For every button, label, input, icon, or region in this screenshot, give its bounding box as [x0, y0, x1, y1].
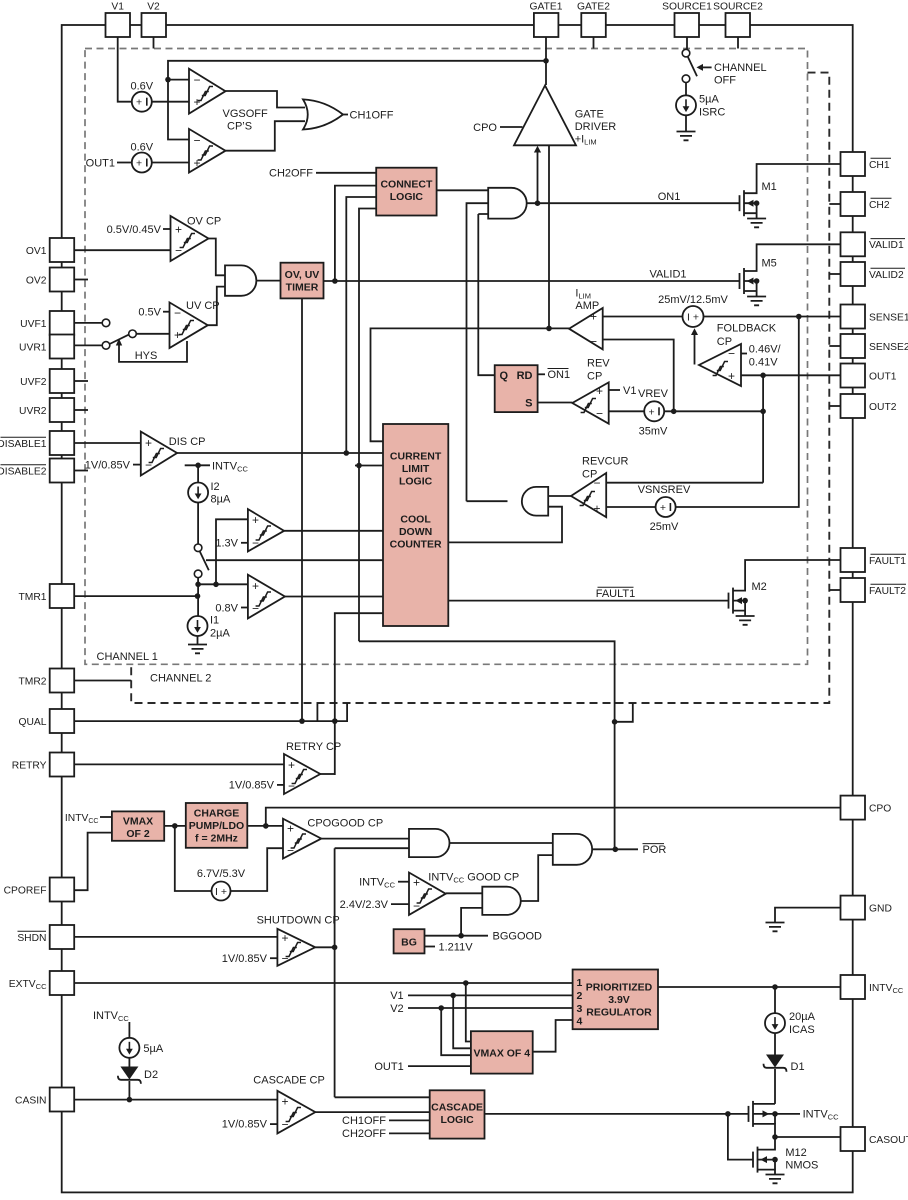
junction dot timer out [332, 278, 338, 284]
wire REVCUR out to AND [548, 495, 571, 497]
svg-text:+: + [660, 502, 666, 514]
comparator REV CP [572, 357, 636, 423]
pin GATE2 [581, 13, 606, 37]
svg-text:FOLDBACK: FOLDBACK [717, 322, 777, 334]
pin CH1 [841, 152, 866, 176]
wire CH2OFF stub [389, 1132, 430, 1134]
wire INTVCC label stub [185, 464, 210, 466]
arrowhead foldback to source [691, 328, 698, 335]
svg-text:CHANNEL: CHANNEL [714, 62, 767, 74]
wire AND in2 vertical from rev AND [467, 203, 489, 501]
wire timer switch node down [197, 578, 199, 617]
wire VMAX OF 2 out to charge pump [164, 825, 186, 827]
current source I2 8uA [188, 481, 231, 506]
svg-text:DISABLE1: DISABLE1 [0, 439, 47, 450]
wire charge pump out to CPOGOOD plus [247, 825, 283, 827]
wire 1.3V comp output to logic [284, 530, 383, 532]
box OV UV TIMER [281, 263, 324, 299]
svg-text:3.9V: 3.9V [608, 994, 630, 1006]
wire BG out to BGGOOD [425, 935, 489, 937]
wire INTVCC dot down to I2 [197, 465, 199, 483]
svg-text:FAULT2: FAULT2 [869, 586, 906, 597]
svg-text:REGULATOR: REGULATOR [586, 1006, 652, 1018]
wire INTVCC GOOD minus stub [391, 903, 409, 905]
wire REV CP plus stub V1 [609, 389, 620, 391]
junction dots DIS/timer section [195, 463, 201, 469]
svg-text:CH1OFF: CH1OFF [342, 1115, 386, 1127]
svg-text:PUMP/LDO: PUMP/LDO [189, 820, 244, 832]
wire BGGOOD up to AND2 in2 [461, 908, 482, 936]
pin VALID1 [841, 232, 866, 256]
wire AND1 in2 from shutdown vertical [335, 847, 409, 849]
timer switch contact top [194, 544, 202, 552]
pin FAULT1 [841, 548, 866, 572]
svg-text:UVF2: UVF2 [20, 377, 47, 388]
wire OUT1 label to VMAX4 in4 [408, 1065, 471, 1067]
svg-text:ICAS: ICAS [789, 1024, 815, 1036]
svg-text:0.6V: 0.6V [130, 81, 153, 93]
latch Q RD S [495, 365, 538, 412]
pin labels left [0, 246, 47, 1107]
svg-text:CH1: CH1 [869, 160, 890, 171]
wire V2 line to regulator in3 [408, 1007, 573, 1009]
wire FOLDBACK arrow vertical [694, 333, 696, 365]
wire UV CP out to AND [208, 287, 225, 326]
svg-text:+: + [288, 758, 295, 772]
wire RETRY CP minus stub [277, 784, 284, 786]
svg-text:V2: V2 [390, 1003, 403, 1015]
svg-text:VALID1: VALID1 [869, 240, 904, 251]
wire OUT2 stub [829, 405, 840, 407]
wire REVCUR minus line [606, 482, 763, 484]
svg-text:OV CP: OV CP [187, 216, 221, 228]
svg-text:COOL: COOL [400, 514, 431, 526]
svg-text:VMAX: VMAX [123, 815, 153, 827]
junction dots regulator [463, 980, 469, 986]
wire AND1 out to POR AND [450, 842, 553, 844]
wire QUAL vertical into logic [335, 613, 383, 775]
svg-text:V1: V1 [390, 990, 403, 1002]
wire DISABLE2 stub [74, 470, 88, 472]
current source 5uA cascade [119, 1038, 163, 1058]
svg-text:SENSE2: SENSE2 [869, 342, 908, 353]
wire V2 stub to channel1 dash [153, 37, 155, 49]
pin INTVCC [841, 975, 866, 999]
wire 0.8V stub [241, 607, 248, 609]
wire QUAL line [74, 720, 335, 722]
wire D1 to cascode drain [774, 1069, 776, 1104]
svg-text:VALID1: VALID1 [649, 268, 686, 280]
wire I2 to switch [197, 502, 199, 544]
wire RETRY to RETRY CP plus [74, 763, 284, 765]
pin FAULT2 [841, 578, 866, 602]
svg-text:−: − [287, 843, 294, 857]
HYS arrowhead [116, 339, 122, 346]
ground GND pin [766, 923, 785, 932]
wire switch to ISRC [685, 83, 687, 96]
wire gate sense line to VGSOFF comparators [168, 61, 546, 140]
svg-text:CPOREF: CPOREF [4, 885, 47, 896]
svg-text:−: − [252, 536, 259, 550]
svg-text:0.6V: 0.6V [130, 141, 153, 153]
svg-text:−: − [174, 306, 181, 320]
wire EXTVCC branch down to VMAX4 in1 [466, 983, 471, 1042]
transistor M12 NMOS [753, 1137, 775, 1175]
AND gate 3-input (gate driver enable) [488, 188, 527, 219]
svg-text:SOURCE2: SOURCE2 [713, 2, 763, 13]
wire CPO stub into gate driver [500, 126, 522, 128]
comparator FOLDBACK CP [699, 322, 782, 386]
svg-text:+: + [194, 95, 201, 109]
wire FAULT1 from logic to M2 gate [448, 600, 728, 602]
pin QUAL [50, 709, 74, 733]
OR gate CH1OFF [303, 99, 343, 129]
svg-text:+: + [252, 513, 259, 527]
wire SENSE2 stub [829, 345, 840, 347]
svg-text:5µA: 5µA [143, 1043, 163, 1055]
wire TMR2 stub [74, 680, 131, 682]
svg-text:LIMIT: LIMIT [402, 463, 430, 475]
wire rev AND in2 from logic [448, 507, 562, 543]
svg-text:VSNSREV: VSNSREV [638, 484, 691, 496]
pin DISABLE2 [50, 459, 74, 483]
svg-text:3: 3 [577, 1003, 583, 1015]
wire 0.5V stub to UV CP minus [163, 311, 170, 313]
svg-text:1V/0.85V: 1V/0.85V [222, 1119, 268, 1131]
svg-text:TMR1: TMR1 [18, 592, 46, 603]
svg-text:ON1: ON1 [658, 191, 681, 203]
junction dot INTVCC line [772, 984, 778, 990]
wire SHUTDOWN out to vertical [315, 946, 334, 948]
svg-text:POR: POR [643, 844, 667, 856]
wire VSNSREV to SENSE1 node [676, 317, 799, 508]
svg-text:I2: I2 [211, 481, 220, 493]
wire 1V/0.85V stub to DIS CP minus [133, 464, 141, 466]
svg-text:OFF: OFF [714, 75, 736, 87]
svg-text:D2: D2 [144, 1069, 158, 1081]
wire HYS feedback [119, 341, 187, 362]
junction dot POR [613, 847, 619, 853]
wire CH1OFF stub [389, 1119, 430, 1121]
svg-text:0.46V/: 0.46V/ [749, 343, 782, 355]
wire SOURCE2 stub [737, 37, 739, 49]
svg-text:RD: RD [517, 370, 533, 382]
svg-text:QUAL: QUAL [18, 717, 46, 728]
wire RETRY CP output up to QUAL node [320, 773, 335, 775]
junction dot AND output [535, 200, 541, 206]
svg-text:OV1: OV1 [26, 246, 47, 257]
svg-text:CPO: CPO [869, 803, 891, 814]
comparator CPOGOOD CP [283, 818, 383, 859]
wire OV2 stub [74, 279, 88, 281]
switch contact bottom (channel off) [682, 75, 690, 83]
wire VREV to OUT1 node [664, 410, 763, 412]
transistor M2 [729, 560, 841, 616]
wire SHUTDOWN minus stub [270, 957, 277, 959]
source 0.6V (V1) [130, 81, 153, 112]
pin TMR1 [50, 584, 74, 608]
svg-text:+: + [287, 822, 294, 836]
wire charge pump out up to CPO line [266, 808, 841, 826]
wire branch to VGS comp1 minus [168, 79, 189, 81]
wire CPOREF up to VMAX OF 2 [74, 833, 112, 891]
svg-text:25mV: 25mV [650, 521, 679, 533]
svg-text:OF 2: OF 2 [126, 828, 149, 840]
svg-text:V2: V2 [147, 2, 160, 13]
current source 20uA ICAS [765, 1011, 816, 1036]
pin RETRY [50, 753, 74, 777]
wire INTVCC into current limit logic [355, 465, 383, 467]
wire connect logic output to AND [437, 189, 489, 191]
wire OV CP out to AND [209, 239, 226, 276]
current source I1 2uA [188, 615, 231, 640]
svg-text:2.4V/2.3V: 2.4V/2.3V [340, 899, 389, 911]
svg-text:UVR2: UVR2 [19, 406, 47, 417]
svg-text:+: + [728, 369, 735, 383]
current source 5uA ISRC [676, 94, 725, 119]
svg-text:SHDN: SHDN [17, 933, 46, 944]
wire INTVCC GOOD plus stub [398, 881, 409, 883]
wire FAULT2 stub [829, 589, 840, 591]
svg-text:DISABLE2: DISABLE2 [0, 466, 47, 477]
pin GATE1 [534, 13, 559, 37]
svg-text:HYS: HYS [135, 350, 158, 362]
svg-text:−: − [288, 779, 295, 793]
wire vertical to connect logic in4 from INTVCC line [359, 209, 376, 642]
svg-text:25mV/12.5mV: 25mV/12.5mV [658, 294, 728, 306]
svg-text:Q: Q [500, 370, 509, 382]
svg-text:BGGOOD: BGGOOD [493, 931, 543, 943]
svg-text:CH2: CH2 [869, 200, 890, 211]
svg-text:CP: CP [587, 370, 602, 382]
wire DIS CP output to current limit logic [177, 452, 383, 454]
wire OUT1 node vertical [762, 375, 764, 482]
svg-text:M12: M12 [785, 1147, 806, 1159]
wire SHDN to SHUTDOWN CP [74, 936, 277, 938]
pin UVR1 [50, 335, 74, 359]
svg-text:CASCADE CP: CASCADE CP [253, 1074, 325, 1086]
svg-text:DOWN: DOWN [399, 526, 432, 538]
svg-text:CP: CP [582, 469, 597, 481]
svg-text:ON1: ON1 [548, 369, 571, 381]
svg-text:−: − [145, 458, 152, 472]
wire CASOUT line [775, 1136, 841, 1138]
wire UVF2 stub [74, 380, 88, 382]
pin SHDN [50, 925, 74, 949]
pin CPO [841, 796, 866, 820]
wire UVR1 to switch contact [74, 344, 101, 346]
svg-text:NMOS: NMOS [785, 1160, 818, 1172]
pin OV2 [50, 268, 74, 292]
pin TMR2 [50, 669, 74, 693]
wire VGS comp1 output to OR [226, 91, 306, 108]
channel 1 dashed box [85, 49, 808, 665]
svg-text:+: + [649, 406, 655, 418]
switch pole [129, 330, 137, 338]
pin CH2 [841, 192, 866, 216]
svg-text:−: − [282, 951, 289, 965]
svg-text:CHANNEL 2: CHANNEL 2 [150, 673, 211, 685]
svg-text:INTVCC GOOD CP: INTVCC GOOD CP [428, 871, 519, 884]
svg-text:VALID2: VALID2 [869, 270, 904, 281]
svg-text:OV, UV: OV, UV [285, 269, 320, 281]
svg-text:+: + [596, 384, 603, 398]
junction dot CASIN [127, 1097, 133, 1103]
svg-text:GATE2: GATE2 [577, 2, 610, 13]
wire BG 1.211V stub [425, 946, 436, 948]
wire OUT1 label to 0.6V source2 [117, 162, 132, 164]
wire VMAX out down to 6.7V ref [175, 826, 212, 891]
svg-text:OUT1: OUT1 [86, 157, 115, 169]
wire switch pole to UV CP plus [136, 333, 169, 335]
junction dot cascade gate [725, 1111, 731, 1117]
svg-text:1.3V: 1.3V [215, 538, 238, 550]
transistor M5 [740, 244, 841, 296]
pin UVF2 [50, 369, 74, 393]
timer switch contact bottom [194, 570, 202, 578]
wire INTVCC label to VMAX OF 2 [100, 816, 112, 818]
wire UVR2 stub [74, 409, 88, 411]
box CONNECT LOGIC [376, 168, 436, 216]
svg-text:CP’S: CP’S [227, 121, 252, 133]
source 0.6V (OUT1) [86, 141, 154, 172]
comparator 0.8V [215, 575, 285, 619]
pin CPOREF [50, 878, 74, 902]
wire rev AND output left [467, 500, 508, 502]
comparator VGSOFF CP 1 [189, 69, 226, 114]
svg-text:20µA: 20µA [789, 1011, 816, 1023]
wire POR line from connect vertical [359, 641, 615, 849]
wire POR label stub [615, 848, 638, 850]
box CHARGE PUMP/LDO [186, 803, 248, 848]
junction dots QUAL line [299, 718, 305, 724]
svg-text:UVR1: UVR1 [19, 342, 47, 353]
pin UVF1 [50, 311, 74, 335]
junction dots ILIM section [546, 326, 552, 332]
svg-text:I1: I1 [210, 615, 219, 627]
wire 0.8V comp output to logic [285, 596, 383, 598]
svg-text:0.5V: 0.5V [138, 307, 161, 319]
svg-text:5µA: 5µA [699, 94, 719, 106]
wire FOLDBACK plus to OUT1 pin [741, 374, 841, 376]
wire CASCADE minus stub [270, 1123, 277, 1125]
svg-text:SENSE1: SENSE1 [869, 312, 908, 323]
wire INTVCC pin node down to ICAS [774, 987, 776, 1013]
svg-text:DRIVER: DRIVER [575, 121, 617, 133]
pin OV1 [50, 238, 74, 262]
svg-text:CP: CP [717, 336, 732, 348]
comparator 1.3V [215, 509, 284, 551]
svg-text:FAULT1: FAULT1 [869, 556, 906, 567]
svg-text:REVCUR: REVCUR [582, 456, 629, 468]
junction dot VGS minus branch [165, 77, 171, 83]
svg-text:+: + [194, 156, 201, 170]
pin GND [841, 896, 866, 920]
ground M1 [747, 219, 766, 228]
comparator REVCUR CP [571, 456, 629, 517]
wire UVF1 to switch contact [74, 322, 101, 324]
svg-text:SOURCE1: SOURCE1 [662, 2, 712, 13]
switch blade [110, 335, 129, 344]
svg-text:+: + [175, 222, 182, 236]
wire latch RD output stub [538, 373, 545, 375]
svg-text:RETRY: RETRY [12, 760, 47, 771]
svg-text:UVF1: UVF1 [20, 319, 47, 330]
ground M12 [766, 1175, 785, 1184]
svg-text:OUT2: OUT2 [869, 402, 897, 413]
svg-text:+: + [282, 931, 289, 945]
wire GATE1 down to gate driver apex [545, 37, 547, 85]
wire timer node up to 1.3V comp plus [216, 519, 248, 584]
arrowhead into gate driver [534, 146, 541, 153]
wire POR AND output [592, 848, 615, 850]
wire REVCUR plus to VSNSREV [606, 506, 655, 508]
wire VMAX4 out to regulator in4 [533, 1020, 573, 1052]
channel 2 dashed box (partial) [131, 73, 829, 703]
svg-text:2: 2 [577, 990, 583, 1002]
svg-text:OUT1: OUT1 [869, 371, 897, 382]
wire CASIN to CASCADE CP plus [74, 1099, 277, 1101]
ground ISRC [677, 132, 696, 141]
source VSNSREV 25mV [638, 484, 691, 533]
AND gate OV/UV [225, 265, 256, 295]
svg-text:1.211V: 1.211V [439, 941, 474, 953]
comparator ILIM AMP [569, 287, 603, 349]
svg-text:−: − [413, 899, 420, 913]
svg-text:−: − [252, 602, 259, 616]
wire AND output / ON1 to M1 gate [527, 202, 740, 204]
svg-text:GND: GND [869, 903, 892, 914]
wire ILIM plus to 25mV source and SENSE1 [603, 316, 841, 318]
wire INTVCC down through 5uA and D2 to CASIN line [128, 1022, 130, 1100]
wire I1 to ground [197, 635, 199, 644]
wire V1 branch down to VMAX4 in2 [453, 995, 471, 1048]
comparator DIS CP [141, 432, 206, 476]
pin SOURCE2 [726, 13, 751, 37]
wire CASCADE CP out to cascade logic [315, 1111, 429, 1113]
svg-text:GATE1: GATE1 [530, 2, 563, 13]
junction dot gate line [543, 58, 549, 64]
svg-text:ISRC: ISRC [699, 107, 725, 119]
comparator RETRY CP [229, 741, 342, 794]
comparator VGSOFF CP 2 [189, 129, 226, 173]
wire REV CP minus to VREV source [609, 410, 645, 412]
source 6.7V/5.3V [197, 868, 246, 901]
svg-text:CHARGE: CHARGE [194, 808, 240, 820]
wire OR output CH1OFF [343, 114, 348, 116]
svg-text:VGSOFF: VGSOFF [223, 108, 269, 120]
wire FOLDBACK minus stub [741, 353, 747, 355]
svg-text:I +: I + [687, 312, 699, 324]
svg-text:SHUTDOWN CP: SHUTDOWN CP [257, 914, 340, 926]
switch contact top (channel off) [682, 49, 690, 57]
svg-text:6.7V/5.3V: 6.7V/5.3V [197, 868, 246, 880]
wire 0.5V/0.45V stub to OV CP plus [163, 228, 171, 230]
pin SOURCE1 [675, 13, 700, 37]
overbars for right pin labels [871, 158, 907, 584]
ground I1 [188, 645, 207, 654]
svg-text:CHANNEL 1: CHANNEL 1 [97, 651, 158, 663]
AND gate 2 (bg good) [482, 887, 520, 915]
diode D2 [118, 1067, 158, 1084]
wire GATE2 stub [593, 37, 595, 49]
svg-text:LOGIC: LOGIC [390, 191, 424, 203]
box CASCADE LOGIC [430, 1090, 485, 1138]
svg-text:RETRY CP: RETRY CP [286, 741, 341, 753]
ground M2 [736, 616, 755, 625]
svg-text:+: + [136, 97, 142, 109]
AND gate 1 (cpogood) [409, 829, 449, 857]
